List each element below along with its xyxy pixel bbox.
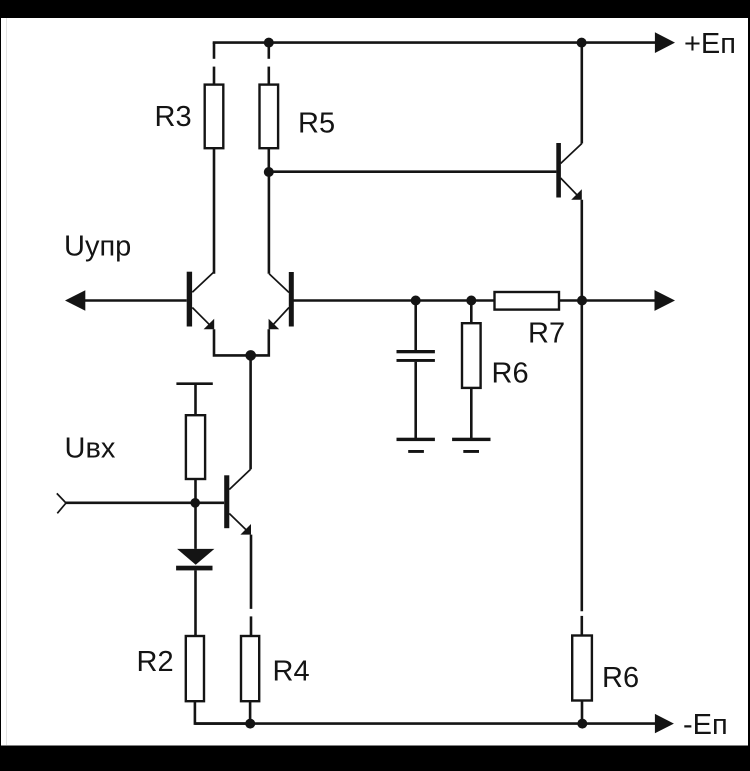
resistor R2 body bbox=[186, 636, 204, 701]
wire input to Q4 base bbox=[66, 501, 224, 504]
svg-text:R3: R3 bbox=[155, 101, 192, 133]
wire bias tee bar bbox=[176, 382, 212, 385]
resistor R7 body bbox=[495, 292, 560, 310]
ground 2 long line bbox=[452, 438, 490, 441]
wire bias tee stem to R1 top bbox=[194, 384, 197, 416]
wire top rail +Ep bbox=[213, 41, 656, 44]
resistor R4 body bbox=[241, 636, 259, 701]
wire R5 top lead (lower segment) bbox=[267, 67, 270, 85]
svg-text:Uупр: Uупр bbox=[64, 231, 131, 263]
wire R5 bottom lead to node A bbox=[267, 148, 270, 172]
transistor Q2 emitter arrowhead bbox=[269, 319, 280, 330]
svg-text:R6: R6 bbox=[492, 358, 529, 390]
ground 1 short line bbox=[408, 450, 424, 453]
wire node A to Q3 base bbox=[269, 170, 557, 173]
svg-text:R6: R6 bbox=[602, 662, 639, 694]
transistor Q3 collector diagonal bbox=[561, 144, 582, 164]
wire R3 bottom lead to Q1 collector bend bbox=[213, 148, 216, 274]
svg-text:R2: R2 bbox=[137, 646, 174, 678]
capacitor C1 bottom plate bbox=[397, 359, 435, 362]
resistor R3 body bbox=[205, 85, 224, 149]
transistor Q4 emitter arrowhead bbox=[240, 524, 251, 535]
ground 2 short line bbox=[463, 450, 479, 453]
wire Q2 emitter to common node bbox=[251, 329, 269, 355]
wire R2 bottom lead to bottom rail bbox=[195, 701, 250, 723]
junction dot bottom rail R6 second bbox=[577, 719, 587, 729]
transistor Q4 base bar bbox=[224, 475, 229, 528]
wire R1 bottom to input node B bbox=[194, 479, 197, 503]
svg-text:R7: R7 bbox=[528, 318, 565, 350]
wire diode D1 cathode to R2 top bbox=[194, 570, 197, 636]
junction dot top rail R5 bbox=[264, 38, 274, 48]
svg-text:Uвх: Uвх bbox=[65, 433, 116, 465]
transistor Q3 emitter diagonal bbox=[561, 178, 580, 198]
svg-text:+Еп: +Еп bbox=[684, 28, 736, 60]
junction dot output x582 bbox=[577, 296, 587, 306]
wire Q4 emitter down to R4 (upper segment) bbox=[250, 535, 253, 609]
wire node B down to diode D1 anode bbox=[194, 503, 197, 549]
wire Q3 emitter down to output node bbox=[580, 200, 583, 301]
wire R4 bottom lead bbox=[249, 701, 252, 723]
wire x582 output node down to R6 second (upper segment) bbox=[580, 301, 583, 612]
diode D1 cathode bar bbox=[176, 566, 212, 571]
transistor Q1 emitter arrowhead bbox=[204, 319, 215, 330]
junction dot node A bbox=[264, 167, 274, 177]
diode D1 triangle bbox=[177, 549, 214, 565]
transistor Q3 emitter arrowhead bbox=[571, 189, 582, 200]
transistor Q3 base bar bbox=[556, 143, 561, 198]
transistor Q2 base bar bbox=[289, 272, 294, 327]
capacitor C1 top plate bbox=[397, 350, 435, 353]
wire R6 second bottom lead bbox=[581, 701, 584, 724]
input chevron lower stroke bbox=[57, 503, 66, 513]
wire node A down to Q2 collector bend bbox=[268, 172, 271, 274]
wire Q3 collector to top rail bbox=[580, 43, 583, 144]
arrow -Ep bbox=[655, 714, 674, 733]
wire Uupr arrow to Q1 base bbox=[80, 299, 187, 302]
junction dot top rail Q3 collector bbox=[577, 38, 587, 48]
junction dot bottom rail R4 bbox=[245, 719, 255, 729]
transistor Q2 emitter diagonal bbox=[271, 308, 289, 328]
svg-text:-Еп: -Еп bbox=[683, 709, 728, 741]
transistor Q4 collector diagonal bbox=[229, 469, 250, 489]
resistor R1 body (input bias) bbox=[186, 415, 205, 479]
resistor R6 body bbox=[462, 323, 481, 388]
svg-text:R5: R5 bbox=[298, 108, 335, 140]
svg-text:R4: R4 bbox=[273, 656, 310, 688]
arrow +Ep bbox=[655, 32, 675, 53]
wire Q2 base to R7 left lead bbox=[293, 299, 494, 302]
transistor Q2 collector diagonal bbox=[269, 274, 289, 293]
wire Q1 emitter to common node bbox=[214, 329, 251, 355]
wire common node down to Q4 collector bend bbox=[249, 355, 252, 469]
transistor Q4 emitter diagonal bbox=[229, 514, 249, 533]
transistor Q1 collector diagonal bbox=[192, 272, 214, 292]
wire capacitor C1 top lead bbox=[414, 301, 417, 351]
arrow output right bbox=[655, 290, 676, 311]
junction dot output R6 bbox=[466, 296, 476, 306]
junction dot diff pair common node bbox=[245, 350, 256, 361]
junction dot output capacitor bbox=[411, 296, 421, 306]
wire R3 top lead (lower segment) bbox=[213, 67, 216, 85]
input chevron upper stroke bbox=[57, 493, 66, 503]
wire R6 bottom lead to ground bbox=[470, 388, 473, 439]
ground 1 long line bbox=[397, 438, 435, 441]
wire R3 top lead (upper segment) bbox=[213, 43, 216, 59]
wire capacitor C1 bottom lead to ground bbox=[414, 362, 417, 439]
transistor Q1 emitter diagonal bbox=[192, 308, 212, 328]
wire bottom rail -Ep bbox=[195, 722, 656, 725]
wire x582 output node down to R6 second (lower segment) bbox=[580, 616, 583, 636]
resistor R6 second body bbox=[572, 636, 592, 701]
transistor Q1 base bar bbox=[187, 272, 192, 327]
faint scan line left bbox=[6, 18, 8, 745]
junction dot input node B bbox=[190, 498, 200, 508]
wire R6 top lead bbox=[470, 301, 473, 324]
arrow Uupr bbox=[65, 290, 85, 311]
wire Q4 emitter down to R4 (lower segment) bbox=[250, 616, 253, 636]
wire R7 right lead to output arrow bbox=[559, 299, 656, 302]
wire R5 top lead (upper segment) bbox=[267, 43, 270, 59]
resistor R5 body bbox=[260, 85, 279, 149]
